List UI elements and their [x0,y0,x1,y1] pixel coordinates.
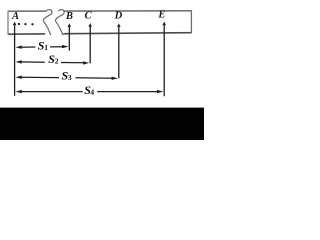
svg-text:C: C [85,10,93,21]
svg-text:D: D [114,11,123,22]
line B [68,25,70,50]
S4 arrowheads [15,90,21,93]
head A [13,22,17,26]
head D [117,23,121,27]
svg-text:1: 1 [44,43,48,52]
svg-text:A: A [11,11,19,22]
S2 arrowheads [15,60,21,63]
head B [68,23,72,27]
break curve right [55,10,64,36]
bar (strip) outline [8,10,191,35]
svg-text:E: E [157,10,165,21]
ellipsis dots [18,23,34,26]
S1 arrowheads [15,46,21,49]
svg-text:3: 3 [68,73,72,82]
black band [0,108,204,140]
dimension labels [38,38,95,97]
S1 shafts [19,46,35,48]
dimension lines [19,47,160,92]
line C [89,25,91,63]
break eraser [49,10,58,35]
svg-text:B: B [65,11,73,22]
S3 shafts [19,76,59,78]
line A [14,24,16,96]
head C [88,23,92,27]
S4 shafts [19,91,83,93]
S3 arrowheads [15,76,21,79]
head E [162,22,166,26]
line D [118,25,120,78]
point labels [11,10,165,23]
break curve left [43,10,52,36]
svg-text:4: 4 [90,87,94,96]
S2 shafts [19,61,45,63]
line E [163,24,165,97]
svg-text:2: 2 [55,56,59,65]
vertical extension lines with up arrowheads [15,24,165,97]
